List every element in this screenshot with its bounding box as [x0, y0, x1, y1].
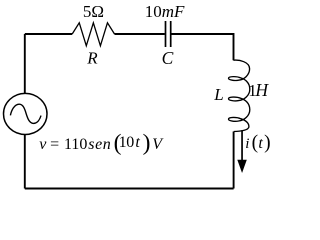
wire inductor to bottom-right corner [233, 132, 235, 189]
AC source circle [4, 93, 48, 134]
left wire lower segment [24, 135, 26, 189]
current arrow head [237, 160, 247, 173]
svg-text:1H: 1H [248, 80, 269, 100]
current arrow i(t) stem [241, 130, 243, 161]
sine wave inside source [10, 104, 41, 123]
bottom wire [25, 188, 234, 190]
svg-text:10mF: 10mF [145, 2, 185, 21]
capacitor C plates [166, 21, 171, 47]
svg-text:10t: 10t [119, 134, 141, 151]
resistor R zigzag [72, 23, 114, 46]
left wire upper segment [24, 34, 26, 93]
wire top-left segment [25, 33, 72, 35]
svg-text:R: R [86, 48, 98, 67]
svg-text:L: L [213, 85, 223, 104]
wire capacitor to top-right corner and down [171, 34, 233, 60]
inductor L coil [229, 60, 250, 131]
svg-text:5Ω: 5Ω [83, 2, 104, 21]
svg-text:C: C [162, 48, 174, 68]
wire between resistor and capacitor [115, 33, 165, 35]
